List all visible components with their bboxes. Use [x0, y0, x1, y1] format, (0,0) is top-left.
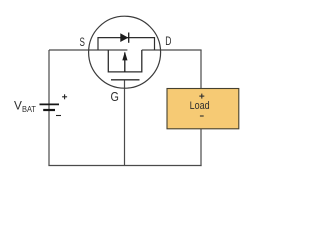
- svg-text:Load: Load: [190, 100, 210, 112]
- svg-text:V: V: [14, 98, 22, 112]
- svg-text:S: S: [80, 35, 85, 49]
- svg-text:BAT: BAT: [22, 105, 36, 114]
- svg-text:D: D: [165, 34, 171, 48]
- svg-text:G: G: [111, 89, 119, 104]
